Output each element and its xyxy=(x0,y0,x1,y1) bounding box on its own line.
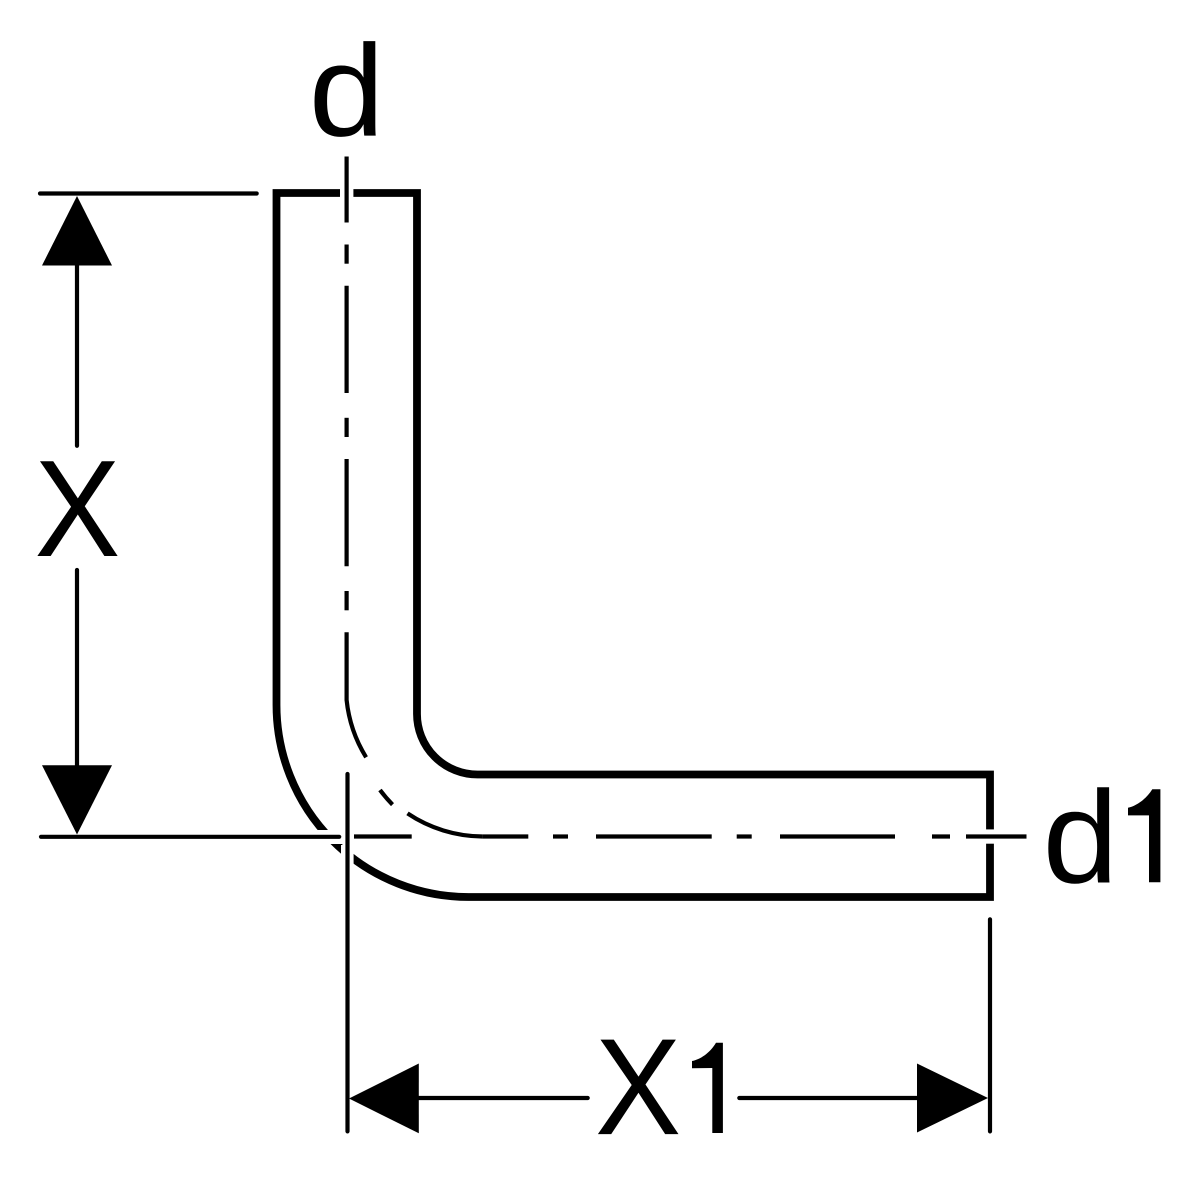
X1 right extension line xyxy=(988,919,992,1131)
gap in outer bend arc at horizontal line crossing xyxy=(295,830,365,844)
svg-text:d: d xyxy=(1043,765,1119,911)
centerline bend arc dashes xyxy=(347,632,367,757)
X1 dimension arrow left xyxy=(349,1064,419,1134)
X dimension line upper segment xyxy=(75,266,79,446)
gap in pipe right end edge at centerline crossing xyxy=(981,829,999,843)
label d1 xyxy=(1043,765,1119,911)
svg-text:d: d xyxy=(309,18,385,164)
svg-text:X: X xyxy=(35,432,121,586)
X dimension line lower segment xyxy=(75,570,79,765)
X1 dimension line left segment xyxy=(419,1096,588,1100)
gap in pipe top edge at centerline crossing xyxy=(340,184,353,202)
X1 dimension arrow right xyxy=(917,1064,988,1133)
X1 left extension line xyxy=(345,774,349,1131)
label d xyxy=(309,18,385,164)
centerline of pipe d1 (dash-dot), horizontal axis: explicit dashes xyxy=(354,834,1027,838)
centerline of pipe d (dash-dot), vertical axis: explicit dashes xyxy=(347,157,483,837)
svg-text:X: X xyxy=(595,1010,681,1164)
top extension line xyxy=(40,191,257,195)
label X xyxy=(35,432,121,586)
X dimension arrow down xyxy=(42,765,112,834)
X1 dimension line right segment xyxy=(739,1096,917,1100)
gap in outer bend arc at vertical extension line crossing xyxy=(341,845,354,875)
pipe bend outline (90° elbow, d to d1) xyxy=(277,193,991,897)
bottom extension line xyxy=(41,835,339,839)
label X1 xyxy=(595,1010,681,1164)
X dimension arrow up xyxy=(42,196,112,266)
